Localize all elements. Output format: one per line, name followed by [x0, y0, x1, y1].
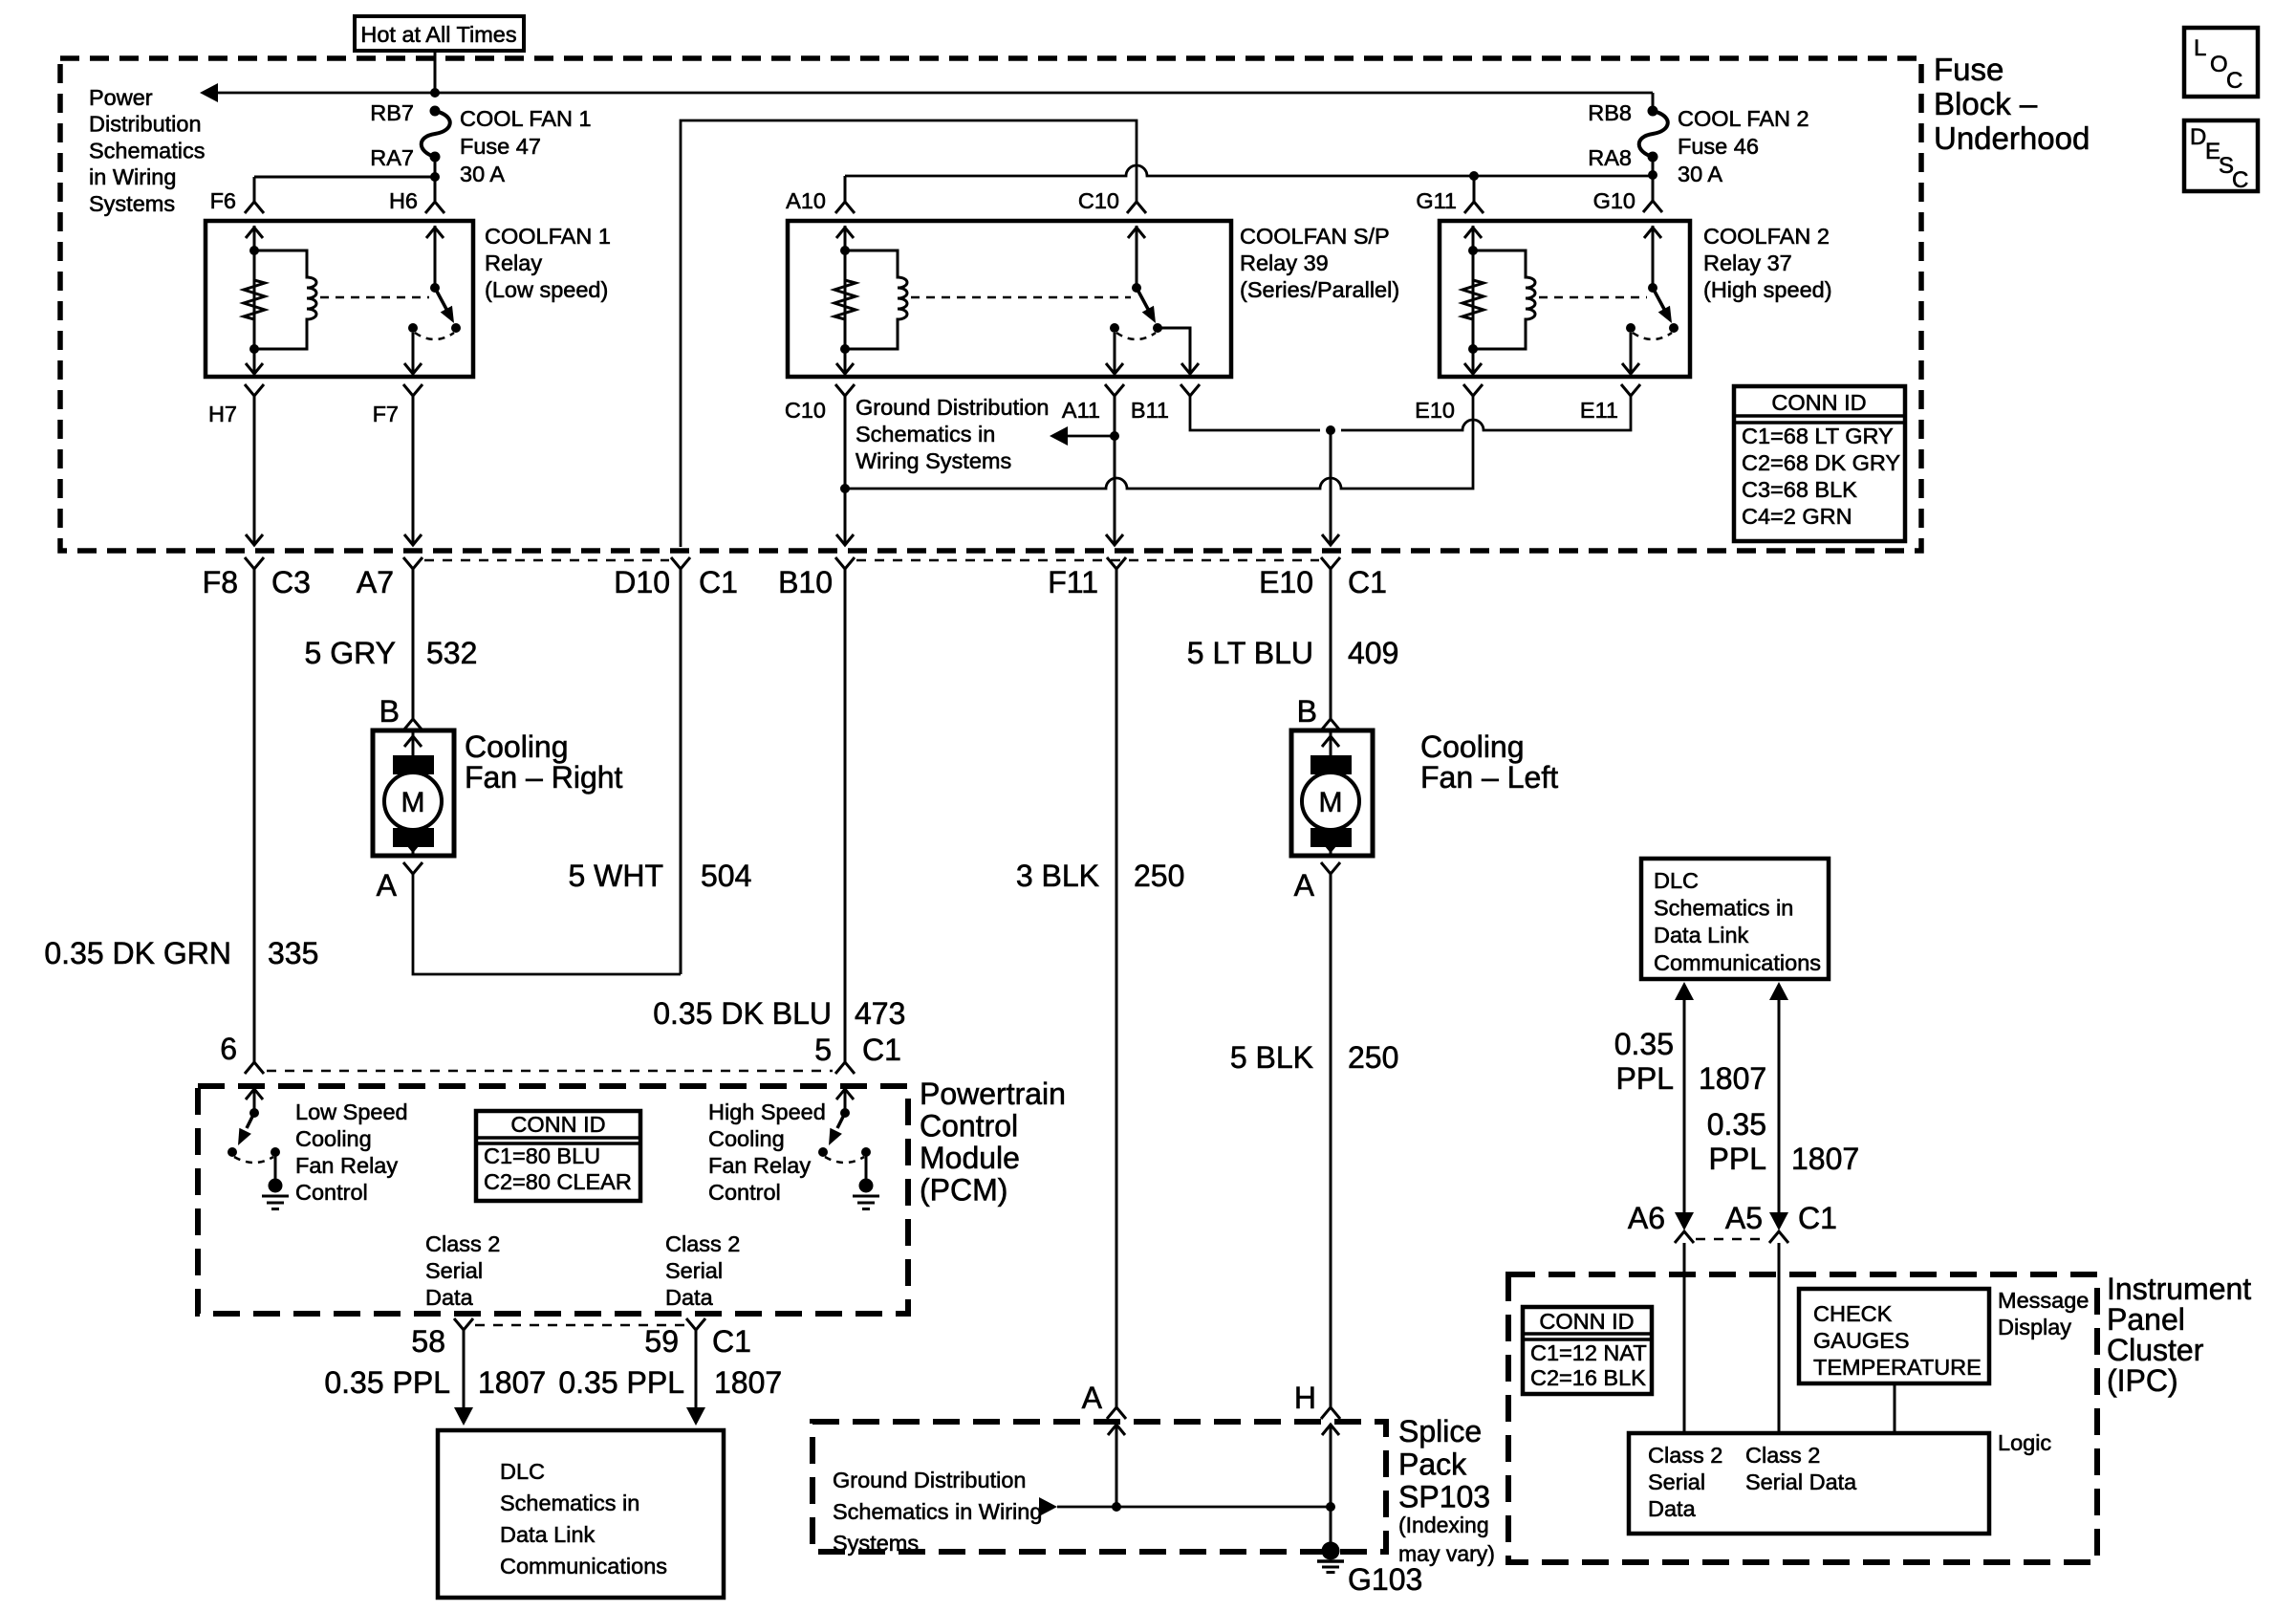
svg-text:A: A [1294, 868, 1315, 903]
connector C1 dashed link 58-59 [475, 1324, 684, 1327]
svg-text:Schematics in: Schematics in [1654, 896, 1793, 921]
svg-text:C2=16 BLK: C2=16 BLK [1530, 1365, 1646, 1390]
relay K1 coil-leg wire [253, 226, 256, 374]
svg-text:1807: 1807 [1699, 1061, 1766, 1096]
svg-text:C1: C1 [712, 1324, 751, 1359]
svg-text:Schematics in: Schematics in [500, 1491, 639, 1515]
relay K37 resistor [1462, 280, 1484, 349]
svg-text:C2=68 DK GRY: C2=68 DK GRY [1742, 450, 1900, 475]
wire C10 down to border [844, 396, 847, 543]
svg-text:30 A: 30 A [460, 162, 505, 186]
svg-text:CONN ID: CONN ID [510, 1112, 605, 1137]
connector dashed link B10-F11-E10 [856, 559, 1319, 562]
connector pin B fan right [403, 719, 422, 730]
node G11 tap [1469, 171, 1479, 181]
svg-text:SP103: SP103 [1398, 1480, 1490, 1514]
svg-text:DLC: DLC [500, 1459, 545, 1484]
motor fan right internals [412, 730, 415, 755]
connector pin A10 [835, 202, 855, 213]
svg-text:CONN ID: CONN ID [1539, 1309, 1634, 1334]
svg-text:L: L [2194, 35, 2206, 61]
svg-text:Cooling: Cooling [465, 729, 569, 764]
svg-text:Class 2: Class 2 [425, 1231, 500, 1256]
svg-text:Module: Module [920, 1141, 1020, 1175]
fuse F46 top terminal [1648, 106, 1658, 117]
svg-text:(IPC): (IPC) [2107, 1363, 2178, 1398]
relay K39 A11 output wire [1114, 333, 1116, 374]
connector C1 dashed link A7-D10 [424, 559, 669, 562]
power source box: Hot at All Times [355, 16, 524, 51]
svg-text:Control: Control [708, 1180, 781, 1205]
svg-text:Communications: Communications [1654, 950, 1821, 975]
svg-text:0.35: 0.35 [1707, 1107, 1766, 1142]
svg-text:Systems: Systems [833, 1531, 919, 1556]
svg-text:1807: 1807 [1791, 1142, 1859, 1176]
svg-text:Fuse 47: Fuse 47 [460, 134, 541, 159]
svg-text:CHECK: CHECK [1813, 1301, 1893, 1326]
svg-text:504: 504 [701, 859, 751, 893]
svg-text:COOLFAN 1: COOLFAN 1 [485, 224, 611, 249]
svg-text:RB7: RB7 [370, 100, 414, 125]
svg-text:C10: C10 [1078, 188, 1119, 213]
svg-text:(High speed): (High speed) [1703, 277, 1832, 302]
svg-text:Control: Control [295, 1180, 368, 1205]
svg-text:C1=12 NAT: C1=12 NAT [1530, 1340, 1647, 1365]
connector pin G11 [1464, 202, 1484, 213]
node high speed switch [840, 1108, 850, 1118]
svg-text:Low Speed: Low Speed [295, 1099, 408, 1124]
svg-text:Display: Display [1998, 1315, 2071, 1339]
relay K39 switch [1136, 226, 1138, 288]
relay K37 E11 output wire [1630, 333, 1633, 374]
high speed switch dashed arc [825, 1157, 864, 1163]
svg-text:59: 59 [644, 1324, 679, 1359]
svg-text:Data: Data [425, 1285, 474, 1310]
svg-text:Data Link: Data Link [1654, 923, 1749, 947]
relay K39 coil-leg wire [844, 226, 847, 374]
svg-text:532: 532 [426, 636, 477, 670]
wire power rail corner down to fuse 46 [1652, 93, 1655, 111]
relay K1 COOLFAN 1 box [206, 221, 473, 377]
fuse F46 bottom terminal [1648, 152, 1658, 163]
svg-text:M: M [401, 787, 425, 818]
svg-text:DLC: DLC [1654, 868, 1699, 893]
relay K1 resistor [244, 280, 265, 349]
motor fan left internals [1330, 730, 1332, 755]
relay K37 coil [1473, 250, 1535, 349]
svg-text:G10: G10 [1593, 188, 1635, 213]
svg-text:A11: A11 [1062, 398, 1100, 423]
connector pin A splice [1107, 1407, 1126, 1419]
connector pin 58 [454, 1318, 473, 1330]
fuse F47 bottom terminal [430, 152, 441, 163]
motor fan right box [373, 730, 454, 856]
connector pin F6 [245, 202, 264, 213]
power distribution arrow [200, 83, 218, 102]
connector pin C10 lower [835, 384, 855, 396]
svg-text:Class 2: Class 2 [1648, 1443, 1722, 1468]
wire 58 to DLC [463, 1330, 466, 1408]
svg-text:COOLFAN S/P: COOLFAN S/P [1240, 224, 1390, 249]
wire G11 stub [1473, 176, 1476, 202]
svg-text:F6: F6 [210, 188, 236, 213]
splice feed arrow [1039, 1497, 1057, 1516]
PCM CONN ID table [476, 1111, 640, 1201]
svg-text:335: 335 [268, 936, 318, 970]
svg-text:Fuse: Fuse [1934, 52, 2004, 87]
fuse F47 COOL FAN 1 Fuse 47 30A [422, 111, 450, 157]
svg-text:Serial Data: Serial Data [1745, 1469, 1857, 1494]
svg-text:3 BLK: 3 BLK [1016, 859, 1099, 893]
svg-text:H: H [1294, 1381, 1316, 1415]
svg-text:5 LT BLU: 5 LT BLU [1187, 636, 1313, 670]
connector pin A fan left [1321, 862, 1340, 874]
PCM dashed border [198, 1086, 908, 1314]
motor fan left box [1291, 730, 1373, 856]
wire 6 into PCM [253, 1089, 256, 1113]
svg-text:O: O [2210, 52, 2228, 77]
svg-text:5 BLK: 5 BLK [1230, 1040, 1313, 1075]
wire A5 into IPC [1778, 1243, 1781, 1433]
wire B11 to E11 [1190, 396, 1631, 430]
low speed switch arm [247, 1113, 254, 1128]
svg-text:Distribution: Distribution [89, 112, 202, 137]
svg-text:C2=80 CLEAR: C2=80 CLEAR [484, 1169, 632, 1194]
svg-text:Splice: Splice [1398, 1414, 1482, 1448]
relay K37 COOLFAN 2 box [1440, 221, 1690, 377]
DLC schematics box upper [1641, 859, 1829, 979]
svg-text:(Indexing: (Indexing [1398, 1513, 1489, 1537]
svg-text:Cooling: Cooling [708, 1126, 785, 1151]
relay K1 F7 output wire [412, 333, 415, 374]
svg-text:C4=2 GRN: C4=2 GRN [1742, 504, 1852, 529]
LOC legend box [2184, 28, 2258, 97]
node low speed switch [249, 1108, 259, 1118]
svg-text:Panel: Panel [2107, 1302, 2185, 1337]
connector C1 dashed link 6-5 [267, 1070, 833, 1073]
low speed ground stem [274, 1152, 277, 1179]
svg-text:Message: Message [1998, 1288, 2089, 1313]
svg-text:in Wiring: in Wiring [89, 164, 176, 189]
wire CHECK to Logic [1894, 1383, 1896, 1433]
wire fan left A down to splice [1330, 874, 1332, 1407]
svg-text:Cooling: Cooling [295, 1126, 372, 1151]
relay K1 actuation dashed line [320, 296, 429, 299]
splice pack dashed border [812, 1422, 1386, 1552]
relay K39 coil [845, 250, 907, 349]
node splice A [1112, 1502, 1121, 1512]
connector pin H7 [245, 384, 264, 396]
relay K37 actuation dashed line [1539, 296, 1647, 299]
wire F6-H6 rail [254, 176, 435, 179]
svg-text:E10: E10 [1415, 398, 1455, 423]
svg-text:A: A [377, 868, 398, 903]
connector pin H6 [425, 202, 444, 213]
svg-text:G103: G103 [1348, 1562, 1422, 1597]
svg-text:B: B [379, 694, 400, 729]
wire H7 down to border [253, 396, 256, 543]
IPC CONN ID table [1523, 1307, 1652, 1394]
node A11 ground tap [1110, 431, 1119, 441]
svg-text:0.35 DK GRN: 0.35 DK GRN [44, 936, 231, 970]
relay K1 switch [434, 226, 437, 288]
wire RA8 to G10 [1652, 157, 1655, 201]
svg-text:Schematics: Schematics [89, 138, 205, 163]
svg-text:Fan – Left: Fan – Left [1420, 760, 1558, 795]
wire H into splice [1330, 1425, 1332, 1507]
relay K37 switch [1652, 226, 1655, 288]
svg-text:E11: E11 [1580, 398, 1618, 423]
svg-text:A6: A6 [1628, 1201, 1665, 1235]
connector pin F8 [245, 557, 264, 569]
svg-text:Relay: Relay [485, 250, 542, 275]
svg-text:PPL: PPL [1709, 1142, 1766, 1176]
svg-text:Serial: Serial [665, 1258, 723, 1283]
relay K1 coil [254, 250, 316, 349]
ground symbol high speed [859, 1179, 874, 1193]
svg-text:Fan Relay: Fan Relay [295, 1153, 398, 1178]
svg-text:Logic: Logic [1998, 1430, 2051, 1455]
connector pin 59 [686, 1318, 705, 1330]
ground G103 [1322, 1542, 1340, 1560]
svg-text:Data Link: Data Link [500, 1522, 596, 1547]
connector pin C10 [1127, 202, 1146, 213]
svg-text:Cooling: Cooling [1420, 729, 1525, 764]
connector pin F11 [1107, 557, 1126, 569]
wire 5 into PCM [844, 1089, 847, 1113]
svg-text:RA8: RA8 [1588, 145, 1632, 170]
wire A5 PPL [1778, 1000, 1781, 1214]
svg-text:F8: F8 [203, 565, 238, 599]
wire A10-G11-G10 rail [845, 165, 1653, 176]
svg-text:B10: B10 [778, 565, 833, 599]
svg-text:Communications: Communications [500, 1554, 667, 1578]
connector pin E10 [1463, 384, 1483, 396]
svg-text:58: 58 [411, 1324, 445, 1359]
connector pin A6 [1675, 1231, 1694, 1243]
wire A11 down to border [1114, 396, 1116, 543]
svg-text:C1: C1 [862, 1033, 901, 1067]
CHECK GAUGES TEMPERATURE box [1799, 1289, 1989, 1383]
connector pin 5 PCM [835, 1062, 855, 1074]
svg-text:Cluster: Cluster [2107, 1333, 2204, 1367]
svg-text:1807: 1807 [714, 1365, 782, 1400]
connector pin B11 [1180, 384, 1200, 396]
svg-text:30 A: 30 A [1678, 162, 1722, 186]
relay K39 resistor [834, 280, 856, 349]
svg-text:1807: 1807 [478, 1365, 546, 1400]
connector pin E10 lower [1321, 557, 1340, 569]
svg-text:Underhood: Underhood [1934, 120, 2090, 156]
node splice H [1326, 1502, 1335, 1512]
low speed switch contacts [227, 1147, 237, 1157]
svg-text:C10: C10 [785, 398, 826, 423]
wire H to ground [1330, 1507, 1332, 1543]
svg-text:G11: G11 [1416, 188, 1457, 213]
svg-text:250: 250 [1134, 859, 1184, 893]
svg-text:High Speed: High Speed [708, 1099, 826, 1124]
svg-text:5: 5 [814, 1033, 832, 1067]
svg-text:Powertrain: Powertrain [920, 1077, 1066, 1111]
svg-text:Serial: Serial [1648, 1469, 1705, 1494]
connector pin B10 [835, 557, 855, 569]
svg-text:Serial: Serial [425, 1258, 483, 1283]
wire A6 PPL [1683, 1000, 1686, 1214]
svg-text:Fan – Right: Fan – Right [465, 760, 623, 795]
relay K39 actuation dashed line [911, 296, 1131, 299]
svg-text:may vary): may vary) [1398, 1541, 1495, 1566]
svg-text:Instrument: Instrument [2107, 1272, 2251, 1306]
connector pin A7 [403, 557, 422, 569]
connector pin E11 [1621, 384, 1640, 396]
IPC dashed border [1508, 1274, 2097, 1562]
svg-text:Fan Relay: Fan Relay [708, 1153, 811, 1178]
svg-text:Ground Distribution: Ground Distribution [856, 395, 1049, 420]
high speed switch contacts [818, 1147, 828, 1157]
svg-text:C1=80 BLU: C1=80 BLU [484, 1143, 600, 1168]
svg-text:A5: A5 [1725, 1201, 1763, 1235]
svg-text:(Series/Parallel): (Series/Parallel) [1240, 277, 1399, 302]
svg-text:Relay 37: Relay 37 [1703, 250, 1792, 275]
fuse block underhood dashed border [60, 58, 1921, 551]
DLC communications box [438, 1430, 724, 1598]
node fuse47 output [430, 172, 440, 182]
wire RA7 to H6 node [434, 157, 437, 201]
svg-text:H7: H7 [208, 402, 237, 426]
wire A into splice [1116, 1425, 1118, 1507]
connector pin F7 [403, 384, 422, 396]
svg-text:Relay 39: Relay 39 [1240, 250, 1329, 275]
svg-text:Pack: Pack [1398, 1447, 1467, 1481]
fuse block CONN ID table [1734, 386, 1905, 541]
svg-text:COOLFAN 2: COOLFAN 2 [1703, 224, 1830, 249]
svg-text:409: 409 [1348, 636, 1398, 670]
connector pin D10 [671, 557, 690, 569]
svg-text:6: 6 [220, 1032, 237, 1066]
svg-text:F11: F11 [1048, 565, 1098, 599]
connector pin H splice [1321, 1407, 1340, 1419]
svg-text:Block –: Block – [1934, 86, 2038, 121]
wire fan right A to D10 [413, 874, 681, 974]
svg-text:COOL FAN 1: COOL FAN 1 [460, 106, 592, 131]
wire F7 down to border [412, 396, 415, 543]
svg-text:Class 2: Class 2 [665, 1231, 740, 1256]
svg-text:C1: C1 [1348, 565, 1387, 599]
svg-text:(Low speed): (Low speed) [485, 277, 608, 302]
svg-text:473: 473 [855, 996, 905, 1031]
wire A10 stub [844, 176, 847, 202]
connector C1 dashed link A6-A5 [1696, 1238, 1767, 1241]
relay K37 coil-leg wire [1472, 226, 1475, 374]
connector pin A fan right [403, 862, 422, 874]
svg-text:E10: E10 [1259, 565, 1313, 599]
svg-text:B11: B11 [1131, 398, 1169, 423]
wire D10 riser to C10 [681, 120, 1137, 547]
connector pin G10 [1643, 201, 1662, 212]
svg-text:PPL: PPL [1616, 1061, 1674, 1096]
relay K39 B11 output wire [1158, 328, 1190, 374]
svg-text:A: A [1082, 1381, 1103, 1415]
low speed switch dashed arc [234, 1157, 273, 1163]
node E10 feed [1326, 425, 1335, 435]
node fuse46 output [1648, 170, 1657, 180]
svg-text:0.35 PPL: 0.35 PPL [558, 1365, 684, 1400]
svg-text:0.35: 0.35 [1614, 1027, 1674, 1061]
ground symbol low speed [269, 1179, 283, 1193]
svg-text:Data: Data [665, 1285, 714, 1310]
connector pin B fan left [1321, 719, 1340, 730]
svg-text:GAUGES: GAUGES [1813, 1328, 1910, 1353]
svg-text:C3: C3 [271, 565, 311, 599]
IPC logic box [1629, 1433, 1989, 1534]
fuse F46 COOL FAN 2 Fuse 46 30A [1639, 111, 1668, 157]
svg-text:D10: D10 [614, 565, 670, 599]
svg-text:Systems: Systems [89, 191, 175, 216]
svg-text:A10: A10 [786, 188, 826, 213]
wire 59 to DLC [695, 1330, 698, 1408]
svg-text:0.35 DK BLU: 0.35 DK BLU [653, 996, 832, 1031]
svg-text:H6: H6 [389, 188, 418, 213]
svg-text:TEMPERATURE: TEMPERATURE [1813, 1355, 1982, 1380]
svg-text:C1: C1 [1798, 1201, 1837, 1235]
svg-text:Schematics in Wiring: Schematics in Wiring [833, 1499, 1042, 1524]
svg-text:5 GRY: 5 GRY [305, 636, 396, 670]
connector pin A5 [1769, 1231, 1788, 1243]
wire A6 into IPC [1683, 1243, 1686, 1433]
relay K39 COOLFAN S/P box [788, 221, 1231, 377]
svg-text:Ground Distribution: Ground Distribution [833, 1468, 1026, 1492]
DESC legend box [2184, 120, 2258, 191]
node at fuse 47 top [430, 88, 440, 98]
svg-text:C: C [2226, 68, 2242, 94]
svg-text:COOL FAN 2: COOL FAN 2 [1678, 106, 1809, 131]
svg-text:5 WHT: 5 WHT [568, 859, 663, 893]
wire from Hot at All Times down [434, 51, 437, 93]
wire E10 relay leg to C10 junction [845, 396, 1473, 489]
svg-text:Class 2: Class 2 [1745, 1443, 1820, 1468]
svg-text:Control: Control [920, 1109, 1018, 1143]
svg-text:Wiring Systems: Wiring Systems [856, 448, 1011, 473]
svg-text:0.35 PPL: 0.35 PPL [324, 1365, 450, 1400]
svg-text:Fuse 46: Fuse 46 [1678, 134, 1759, 159]
fuse F47 top terminal [430, 106, 441, 117]
svg-text:Data: Data [1648, 1496, 1697, 1521]
svg-text:M: M [1319, 787, 1343, 818]
svg-text:250: 250 [1348, 1040, 1398, 1075]
svg-text:Hot at All Times: Hot at All Times [360, 22, 516, 47]
svg-text:A7: A7 [357, 565, 394, 599]
node C10 junction [840, 484, 850, 493]
high speed ground stem [865, 1152, 868, 1179]
svg-text:RA7: RA7 [370, 145, 414, 170]
wire F6 stub [253, 177, 256, 202]
svg-text:C: C [2232, 167, 2248, 193]
connector pin 6 PCM [245, 1062, 264, 1074]
svg-text:B: B [1297, 694, 1317, 729]
svg-text:F7: F7 [373, 402, 399, 426]
svg-text:C1: C1 [699, 565, 738, 599]
svg-text:C3=68 BLK: C3=68 BLK [1742, 477, 1857, 502]
svg-text:(PCM): (PCM) [920, 1173, 1007, 1208]
svg-text:CONN ID: CONN ID [1771, 390, 1866, 415]
high speed switch arm [837, 1113, 845, 1128]
connector pin A11 [1105, 384, 1124, 396]
svg-text:D: D [2190, 124, 2206, 150]
svg-text:RB8: RB8 [1588, 100, 1632, 125]
svg-text:Schematics in: Schematics in [856, 422, 995, 446]
ground distribution arrow left [1050, 426, 1068, 446]
svg-text:C1=68 LT GRY: C1=68 LT GRY [1742, 424, 1894, 448]
